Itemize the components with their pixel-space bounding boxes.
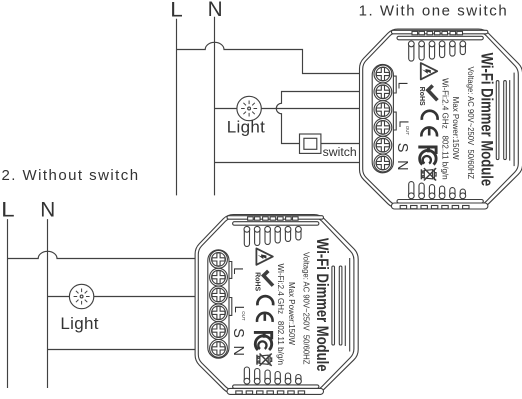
- lamp symbol (diagram 1): [237, 96, 261, 120]
- lamp symbol (diagram 2): [69, 284, 93, 308]
- svg-text:N: N: [208, 0, 223, 21]
- wire N to Light to module terminal Lout (diagram 2): [48, 296, 196, 298]
- svg-text:1. With one switch: 1. With one switch: [359, 2, 509, 19]
- wire N to module terminal N (diagram 1): [215, 162, 360, 164]
- svg-text:switch: switch: [323, 145, 357, 159]
- svg-text:L: L: [170, 0, 183, 21]
- dimmer module U2 (diagram 2): [195, 215, 358, 395]
- svg-text:Light: Light: [60, 314, 98, 333]
- wire N to module terminal N (diagram 2): [48, 349, 196, 351]
- dimmer module U1 (diagram 1): [360, 29, 522, 209]
- wire L to module terminal L with hop over N: [177, 42, 360, 73]
- svg-text:Light: Light: [227, 118, 265, 137]
- wire N vertical (diagram 2): [47, 219, 49, 388]
- switch symbol box: [300, 134, 321, 153]
- svg-text:N: N: [40, 198, 55, 221]
- wire L to module terminal L with hop over N (diagram 2): [8, 251, 196, 258]
- wire L vertical (diagram 2): [7, 219, 9, 388]
- wire N to Light to module terminal Lout: [215, 108, 360, 110]
- wire N vertical (diagram 1): [214, 17, 216, 196]
- wire L vertical (diagram 1): [176, 19, 178, 196]
- svg-text:2. Without switch: 2. Without switch: [2, 167, 140, 184]
- svg-text:L: L: [1, 198, 15, 221]
- switch branch: module terminal 2 to switch to terminal S, hop over light wire: [276, 92, 360, 144]
